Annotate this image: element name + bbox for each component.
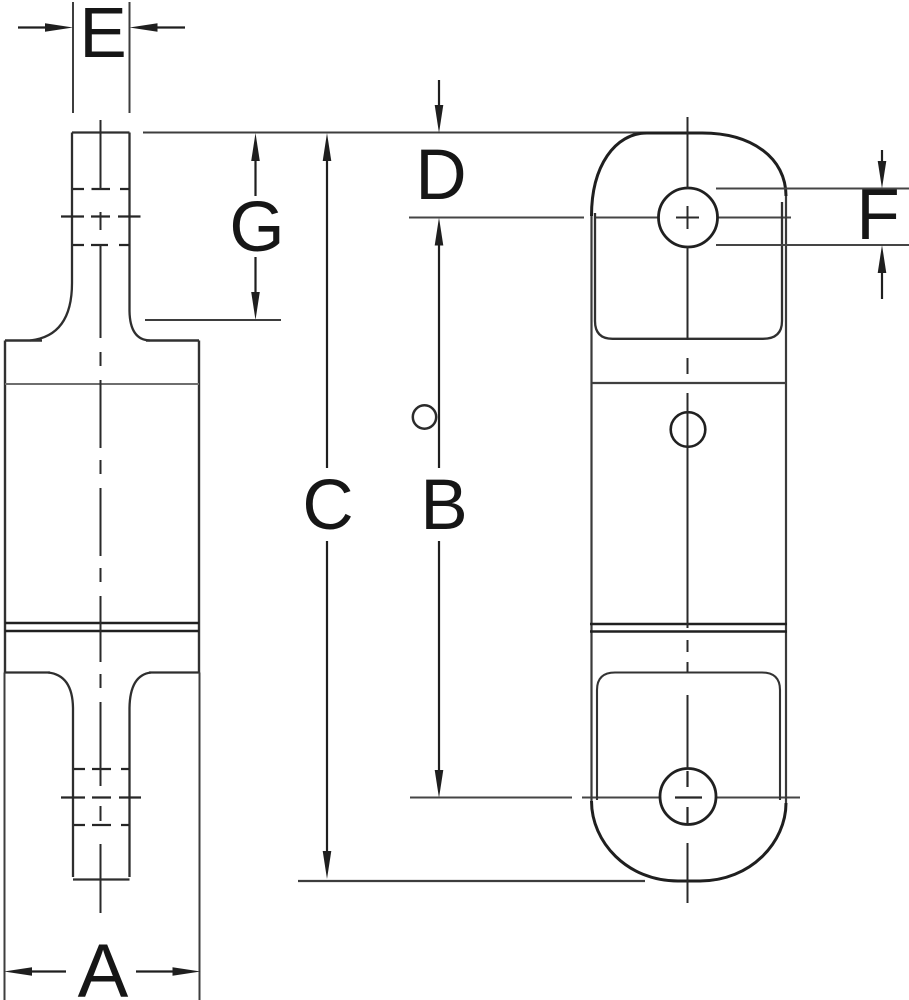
left view top tab hidden hole dashes xyxy=(61,189,141,245)
top hole centerline extension (right of hole) xyxy=(717,217,791,219)
dimension G arrow bottom xyxy=(251,257,260,320)
left view top tab outline xyxy=(30,133,150,341)
small circle marker near B xyxy=(413,405,436,428)
left view bottom tab hidden hole dashes xyxy=(61,769,141,825)
front view top leaf inner bevel line xyxy=(595,202,782,339)
left view A extension line left xyxy=(4,673,6,1000)
dimension C arrow top xyxy=(323,133,332,468)
dimension B arrow top xyxy=(435,218,444,469)
svg-text:B: B xyxy=(420,466,467,545)
svg-text:E: E xyxy=(79,0,126,73)
dimension E arrow left xyxy=(18,23,73,32)
left view body outline xyxy=(5,341,199,673)
left view vertical centerline xyxy=(100,120,102,913)
front view vertical centerline xyxy=(687,117,689,903)
dimension E extension line left xyxy=(72,2,74,113)
dimension D arrow top xyxy=(435,80,444,133)
bottom hole centerline extension (right of hole) xyxy=(716,797,800,799)
bottom hole centerline extension (left of hole) xyxy=(410,797,660,799)
left view barrel top line xyxy=(5,383,199,385)
front view bottom hole center dash xyxy=(675,771,702,825)
front view top hole center cross xyxy=(676,206,699,229)
svg-text:G: G xyxy=(229,188,284,267)
dimension F arrow top xyxy=(878,150,887,189)
dimension F arrow bottom xyxy=(878,245,887,299)
front view bottom leaf inner bevel line xyxy=(597,673,780,801)
left view bottom flange bottom edges xyxy=(5,671,50,673)
dimension C arrow bottom xyxy=(323,541,332,879)
front view top rounded end emphasized arc xyxy=(592,133,787,216)
front view bottom rounded end emphasized arc xyxy=(592,801,787,881)
front view bottom junction lines xyxy=(590,623,787,626)
dimension G arrow top xyxy=(251,133,260,196)
dimension C extension line bottom xyxy=(298,880,645,882)
dimension B arrow bottom xyxy=(435,541,444,798)
svg-text:D: D xyxy=(415,136,466,215)
svg-text:F: F xyxy=(856,176,899,255)
dimension E arrow right xyxy=(130,23,186,32)
front view bottom hole xyxy=(660,769,716,825)
svg-text:C: C xyxy=(302,466,353,545)
dimension F extension line top xyxy=(716,188,909,190)
top hole centerline extension (left of hole) xyxy=(409,217,659,219)
dimension G extension line bottom xyxy=(145,319,281,321)
front view top hole xyxy=(659,188,718,247)
dimension A arrow left xyxy=(4,967,66,976)
left view A extension line right xyxy=(199,673,201,1000)
left view bottom tab outline xyxy=(48,673,151,880)
top extension line (top of both views) xyxy=(143,132,652,134)
dimension E extension line right xyxy=(129,2,131,113)
left view barrel bottom junction lines xyxy=(5,622,199,625)
front view top junction line xyxy=(592,382,787,384)
front view middle hole xyxy=(671,412,706,447)
dimension A arrow right xyxy=(136,967,201,976)
svg-text:A: A xyxy=(78,929,129,1000)
dimension F extension line bottom xyxy=(716,244,909,246)
front view outer outline xyxy=(592,133,787,881)
